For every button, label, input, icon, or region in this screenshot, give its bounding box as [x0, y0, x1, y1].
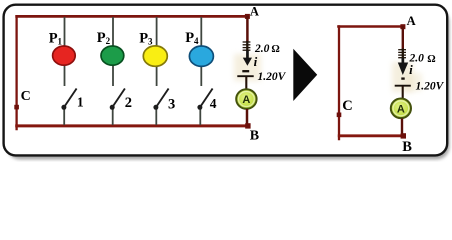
resistor R2: [398, 49, 406, 59]
frame shadow: [7, 9, 450, 160]
wire: left circuit bottom: [15, 124, 248, 127]
ammeter (left): [236, 89, 256, 109]
svg-text:A: A: [407, 14, 416, 28]
wire: ammeter to B (right): [401, 119, 403, 137]
cream patch behind right battery: [392, 62, 413, 92]
svg-text:C: C: [21, 89, 31, 104]
switch 3: [153, 105, 158, 110]
node A (right circuit): [400, 24, 405, 29]
wire: A to resistor (right): [402, 26, 404, 50]
lamp P3: [143, 46, 167, 66]
wire: right circuit top: [337, 25, 404, 28]
wire: battery to ammeter (left): [245, 77, 247, 90]
node B (left circuit): [245, 123, 250, 128]
svg-text:1.20V: 1.20V: [416, 80, 445, 92]
switch 4 stub wire: [199, 108, 201, 125]
wire: left circuit top: [15, 15, 247, 18]
arrow (circuit simplification): [293, 49, 317, 101]
branch 3 wire upper: [156, 17, 158, 86]
svg-text:3: 3: [168, 97, 175, 113]
battery (left): [237, 71, 253, 76]
svg-text:1: 1: [77, 95, 84, 110]
branch 2 wire upper: [112, 17, 114, 86]
switch 4: [197, 105, 202, 110]
ammeter (right): [391, 99, 411, 119]
battery (right): [395, 79, 411, 86]
wire: right side upper (A to resistor): [246, 16, 249, 42]
lamp P2: [101, 46, 124, 65]
resistor R1: [243, 41, 251, 51]
svg-text:A: A: [397, 103, 405, 115]
svg-text:2: 2: [125, 95, 132, 111]
switch 2 stub wire: [112, 108, 114, 125]
branch 1 wire upper: [64, 17, 66, 86]
switch 3 stub wire: [155, 108, 157, 125]
wire: right circuit left side: [338, 25, 340, 140]
wire: ammeter to B (left): [246, 109, 249, 126]
svg-text:Ω: Ω: [271, 44, 279, 55]
switch 1: [61, 105, 66, 110]
svg-text:B: B: [402, 139, 412, 155]
lamp P4: [189, 46, 213, 66]
node C (left circuit): [14, 105, 19, 110]
svg-text:A: A: [250, 4, 259, 18]
svg-text:Ω: Ω: [427, 54, 435, 65]
svg-text:1.20V: 1.20V: [258, 71, 287, 83]
cream patch behind left battery: [234, 54, 261, 81]
svg-text:i: i: [254, 54, 258, 69]
switch 2: [110, 105, 115, 110]
svg-text:i: i: [409, 62, 413, 77]
svg-text:C: C: [342, 98, 352, 114]
svg-text:4: 4: [210, 96, 217, 111]
wire: right circuit bottom: [338, 134, 405, 137]
svg-text:B: B: [250, 129, 259, 144]
switch 1 stub wire: [63, 108, 65, 125]
node A (left circuit): [245, 14, 250, 19]
svg-text:A: A: [242, 94, 250, 106]
current arrow i (right): [398, 58, 408, 75]
lamp P1: [53, 46, 76, 65]
node B (right circuit): [401, 133, 406, 138]
node C (right circuit): [337, 113, 342, 118]
wire: battery to ammeter (right): [402, 86, 404, 99]
wire: left circuit left side: [15, 15, 17, 130]
current arrow i (left): [243, 51, 252, 66]
branch 4 wire upper: [200, 17, 202, 86]
